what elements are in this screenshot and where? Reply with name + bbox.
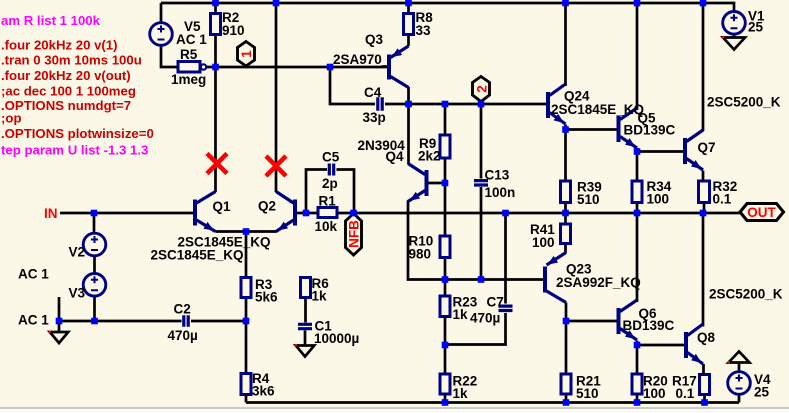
svg-text:1k: 1k <box>453 386 469 401</box>
svg-text:100: 100 <box>532 235 555 250</box>
svg-text:OUT: OUT <box>747 205 776 220</box>
svg-text:33: 33 <box>416 23 432 38</box>
svg-text:;op: ;op <box>1 111 22 126</box>
svg-text:33p: 33p <box>363 110 386 125</box>
svg-text:5k6: 5k6 <box>255 290 278 305</box>
svg-text:.four 20kHz 20 v(out): .four 20kHz 20 v(out) <box>1 68 131 83</box>
svg-text:3k6: 3k6 <box>252 384 275 399</box>
svg-text:.four 20kHz 20 v(1): .four 20kHz 20 v(1) <box>1 38 118 53</box>
svg-text:25: 25 <box>748 20 764 35</box>
svg-text:R1: R1 <box>319 194 337 209</box>
svg-text:R5: R5 <box>180 47 198 62</box>
svg-text:510: 510 <box>577 192 600 207</box>
svg-text:1k: 1k <box>453 307 469 322</box>
svg-text:NFB: NFB <box>347 220 362 248</box>
svg-text:470µ: 470µ <box>168 328 198 343</box>
svg-text:BD139C: BD139C <box>623 318 675 333</box>
svg-text:2SC1845E_KQ: 2SC1845E_KQ <box>551 102 644 117</box>
svg-text:10k: 10k <box>315 219 338 234</box>
svg-text:2SA992F_KQ: 2SA992F_KQ <box>556 275 641 290</box>
svg-text:IN: IN <box>44 206 58 221</box>
svg-text:tep param U list -1.3 1.3: tep param U list -1.3 1.3 <box>1 143 148 158</box>
svg-text:Q1: Q1 <box>213 199 232 214</box>
svg-text:2SC1845E_KQ: 2SC1845E_KQ <box>151 248 244 263</box>
svg-text:0.1: 0.1 <box>676 386 695 401</box>
svg-text:C13: C13 <box>485 168 510 183</box>
svg-text:980: 980 <box>409 247 432 262</box>
svg-text:470µ: 470µ <box>470 311 500 326</box>
svg-text:2p: 2p <box>322 176 338 191</box>
svg-text:V2: V2 <box>69 245 86 260</box>
svg-text:2SC5200_K: 2SC5200_K <box>707 95 781 110</box>
svg-text:100n: 100n <box>485 185 516 200</box>
svg-text:Q2: Q2 <box>258 199 276 214</box>
svg-text:Q7: Q7 <box>698 140 716 155</box>
svg-text:510: 510 <box>576 386 599 401</box>
svg-text:1meg: 1meg <box>171 72 206 87</box>
svg-text:;ac dec 100 1 100meg: ;ac dec 100 1 100meg <box>1 84 136 99</box>
svg-text:2k2: 2k2 <box>418 149 441 164</box>
svg-text:AC 1: AC 1 <box>176 32 207 47</box>
svg-text:V3: V3 <box>69 286 86 301</box>
svg-text:25: 25 <box>754 385 770 400</box>
svg-text:0.1: 0.1 <box>713 192 732 207</box>
svg-text:Q3: Q3 <box>365 32 384 47</box>
svg-text:100: 100 <box>643 386 666 401</box>
svg-text:2: 2 <box>475 85 490 93</box>
svg-text:C5: C5 <box>322 150 340 165</box>
svg-text:1k: 1k <box>312 289 328 304</box>
svg-text:Q4: Q4 <box>386 149 405 164</box>
svg-text:BD139C: BD139C <box>624 123 676 138</box>
svg-text:100: 100 <box>647 192 670 207</box>
svg-text:C4: C4 <box>364 85 382 100</box>
svg-text:2SA970_: 2SA970_ <box>333 52 390 67</box>
svg-text:C2: C2 <box>174 302 191 317</box>
svg-text:Q8: Q8 <box>697 330 716 345</box>
svg-text:AC 1: AC 1 <box>18 267 49 282</box>
svg-text:1: 1 <box>239 50 254 58</box>
svg-text:AC 1: AC 1 <box>18 313 49 328</box>
svg-text:am R list 1 100k: am R list 1 100k <box>1 13 101 28</box>
svg-text:C7: C7 <box>487 295 504 310</box>
svg-text:910: 910 <box>222 23 245 38</box>
svg-text:10000µ: 10000µ <box>314 331 359 346</box>
svg-text:.tran 0 30m 10ms 100u: .tran 0 30m 10ms 100u <box>1 53 142 68</box>
svg-text:2SC5200_K: 2SC5200_K <box>709 287 783 302</box>
svg-text:.OPTIONS plotwinsize=0: .OPTIONS plotwinsize=0 <box>1 126 154 141</box>
